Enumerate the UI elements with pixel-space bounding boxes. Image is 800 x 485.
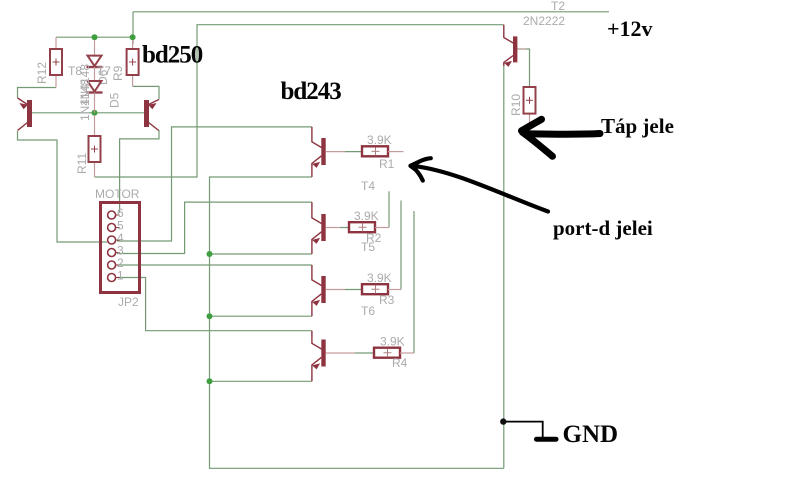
wire emitter T5 [210,315,312,317]
wire top bus down to R9 node [132,12,134,44]
wire port stub R2 [388,191,390,227]
resistor R2 [349,222,389,232]
svg-text:3.9K: 3.9K [354,209,379,223]
wire port stub R3 [400,201,402,290]
svg-text:R1: R1 [379,157,395,171]
node dot base/diode junction [92,110,98,116]
transistor T6 (bd243) [312,331,374,382]
connector JP2 MOTOR [101,203,140,293]
wire emitter T6 [210,380,312,382]
svg-text:1: 1 [117,269,124,283]
wire T7 collector to JP2 pin6 [120,130,159,213]
resistor R4 [374,348,414,358]
wire JP2 pin4 to T3 collector [117,127,312,241]
node dot emitter T5 [207,313,213,319]
node dot GND tap [500,418,506,424]
svg-text:D5: D5 [108,92,122,108]
annotation curved arrow (port-d) [411,158,549,211]
wire port stub R4 [413,211,415,353]
wire T8 collector to JP2 pin4 [18,131,108,242]
node dot emitter T6 [207,378,213,384]
node dot R9 top [130,34,136,40]
wire JP2 pin3 to T4 collector [117,202,312,253]
transistor T7 (PNP bd250 right) [144,100,159,131]
svg-text:3.9K: 3.9K [380,335,405,349]
transistor T5 (bd243) [312,265,362,316]
wire emitter bus T3 down to bottom [210,177,504,468]
wire R9 bottom to T7 emitter [133,86,159,99]
svg-text:1N4148: 1N4148 [78,79,92,121]
svg-text:3.9K: 3.9K [367,271,392,285]
svg-text:JP2: JP2 [118,295,139,309]
wire bus R12 to R9 [56,36,133,38]
resistor R11 [89,115,101,177]
ground symbol [506,422,556,440]
resistor R12 [50,37,62,87]
svg-text:R3: R3 [379,293,395,307]
wire T2 emitter down to GND rail [503,66,505,468]
svg-text:port-d jelei: port-d jelei [553,216,653,240]
diode D5 [87,81,103,113]
node dot diode top [92,34,98,40]
transistor T2 (2N2222) [504,25,526,67]
resistor R10 [524,87,536,123]
svg-text:R10: R10 [509,94,523,116]
svg-text:T6: T6 [361,304,375,318]
svg-text:GND: GND [563,421,619,448]
svg-text:T2: T2 [551,0,565,13]
svg-text:R4: R4 [392,356,408,370]
wire JP2 pin1 to T6 collector [117,278,312,331]
svg-text:T5: T5 [361,240,375,254]
wire emitter T4 [210,253,312,255]
node dot emitter T4 [207,251,213,257]
wire R12 bottom to T8 emitter [18,88,57,99]
svg-text:bd243: bd243 [281,78,342,105]
svg-text:R12: R12 [35,62,49,84]
svg-text:T4: T4 [361,179,375,193]
transistor T8 (PNP bd250 left) [18,98,33,131]
resistor R1 [362,146,404,156]
diode D6 [87,40,103,81]
resistor R3 [362,284,401,294]
svg-text:MOTOR: MOTOR [95,187,140,201]
transistor T4 (bd243) [312,202,349,254]
wire +12V top bus [133,11,609,13]
wire second bus (R11 to T2 collector) [95,25,504,177]
resistor R9 [127,40,139,86]
annotation thick arrow (Tap jele) [522,119,601,156]
wire JP2 pin2 to T5 collector [117,264,312,266]
transistor T3 (bd243) [312,127,362,177]
svg-text:R9: R9 [111,65,125,81]
svg-text:3.9K: 3.9K [367,133,392,147]
svg-text:R11: R11 [75,153,89,174]
svg-text:2N2222: 2N2222 [523,14,565,28]
svg-text:Táp jele: Táp jele [601,114,674,138]
wire T2 base to R10 [517,49,530,87]
svg-text:+12v: +12v [607,16,653,41]
wire base bus of PNP pair [32,112,144,114]
svg-text:bd250: bd250 [142,42,203,69]
svg-text:D6: D6 [96,69,110,85]
